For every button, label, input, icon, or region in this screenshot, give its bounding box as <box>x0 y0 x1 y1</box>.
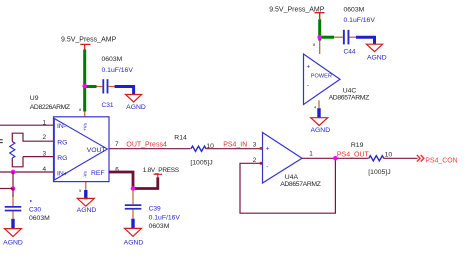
svg-text:AD8226ARMZ: AD8226ARMZ <box>30 104 70 111</box>
svg-text:AGND: AGND <box>126 104 146 111</box>
svg-text:7: 7 <box>115 141 119 148</box>
svg-text:C31: C31 <box>102 102 114 109</box>
svg-text:[1005]J: [1005]J <box>368 169 390 176</box>
svg-text:PS4_IN: PS4_IN <box>223 142 247 149</box>
svg-text:U4C: U4C <box>343 87 357 94</box>
svg-text:0.1uF/16V: 0.1uF/16V <box>149 214 181 221</box>
power port 9.5V_Press_AMP (left) <box>61 37 117 50</box>
svg-text:PS4_OUT: PS4_OUT <box>337 151 370 158</box>
svg-text:+: + <box>307 64 311 71</box>
svg-text:-Vs: -Vs <box>83 171 88 179</box>
port PS4_CON <box>417 155 458 164</box>
wire pin1 IN- <box>0 124 54 126</box>
svg-text:PS4_CON: PS4_CON <box>425 157 457 164</box>
svg-text:C39: C39 <box>149 206 161 213</box>
svg-text:0.1uF/16V: 0.1uF/16V <box>102 67 134 74</box>
wire R14 to U4A pin3 <box>206 148 263 150</box>
svg-text:R19: R19 <box>351 142 364 149</box>
svg-text:0.1uF/16V: 0.1uF/16V <box>344 17 376 24</box>
wire pin2 RG <box>12 133 53 141</box>
svg-text:VOUT: VOUT <box>87 147 106 154</box>
svg-text:0603M: 0603M <box>344 6 365 13</box>
svg-text:AGND: AGND <box>367 55 387 62</box>
svg-text:0603M: 0603M <box>102 56 123 63</box>
pin 5 (U9 -Vs) to ground <box>79 182 88 199</box>
wire U4A output to R19 <box>302 157 369 159</box>
wire feedback loop U4A <box>240 158 335 213</box>
svg-text:AGND: AGND <box>77 207 97 214</box>
svg-text:IN+: IN+ <box>57 170 68 177</box>
svg-text:RG: RG <box>57 140 67 147</box>
pin wire to U4C V+ <box>319 41 321 54</box>
junction node C30 <box>11 186 16 191</box>
ground AGND (C31) <box>126 95 146 112</box>
svg-text:-: - <box>307 83 309 90</box>
junction on right 9.5V rail <box>317 35 322 40</box>
svg-text:AGND: AGND <box>310 127 330 134</box>
ground AGND (C30) <box>3 219 23 247</box>
svg-text:AD8657ARMZ: AD8657ARMZ <box>329 95 370 102</box>
ground AGND (C44) <box>367 44 387 61</box>
svg-text:3: 3 <box>42 151 46 158</box>
svg-text:AD8657ARMZ: AD8657ARMZ <box>280 181 321 188</box>
resistor R19 <box>351 142 392 176</box>
wire REF net 1.8V_PRESS (thick) <box>109 172 158 189</box>
wire pin3 RG <box>12 157 53 167</box>
svg-text:+Vs: +Vs <box>83 122 88 131</box>
svg-text:C30: C30 <box>29 206 41 213</box>
wire 9.5V to C44 (green) <box>320 36 334 39</box>
svg-text:+: + <box>266 146 270 153</box>
wire 9.5V vertical (green) <box>83 50 86 112</box>
wire 9.5V to C31 (green) <box>85 85 97 88</box>
power port 1.8V_PRESS <box>143 167 180 177</box>
ground AGND (U9) <box>77 198 97 213</box>
svg-text:RG: RG <box>57 155 67 162</box>
svg-text:IN-: IN- <box>57 123 66 130</box>
wire R19 to port <box>384 157 418 159</box>
svg-text:0603M: 0603M <box>29 215 50 222</box>
capacitor C44 <box>343 6 375 55</box>
ground AGND (U4C) <box>310 108 330 134</box>
svg-text:[1005]J: [1005]J <box>190 159 212 166</box>
value mark (cut off at edge) <box>0 140 3 143</box>
ground AGND (C39) <box>124 219 144 247</box>
op-amp U4C AD8657ARMZ (power part) <box>304 54 370 105</box>
wire down to C30 node <box>12 172 14 189</box>
junction node 1.8V <box>131 186 136 191</box>
resistor RG (gain resistor) <box>10 142 15 159</box>
svg-text:C44: C44 <box>344 49 356 56</box>
pin wire U4C V- to ground <box>318 100 320 108</box>
pin dot U4A pin3 <box>260 147 263 150</box>
svg-text:1.8V_PRESS: 1.8V_PRESS <box>143 167 180 174</box>
svg-text:10: 10 <box>385 151 393 158</box>
capacitor C39 <box>125 189 181 231</box>
power port 9.5V_Press_AMP (top right) <box>269 6 325 19</box>
svg-text:9.5V_Press_AMP: 9.5V_Press_AMP <box>61 37 117 44</box>
svg-text:AGND: AGND <box>3 240 23 247</box>
wire C44 to AGND (blue) <box>350 36 358 38</box>
op-amp U9 AD8226ARMZ <box>30 95 109 181</box>
svg-text:3: 3 <box>253 141 257 148</box>
wire C31 to AGND (blue) <box>108 86 116 88</box>
svg-text:2: 2 <box>42 134 46 141</box>
op-amp U4A AD8657ARMZ <box>263 133 321 188</box>
svg-text:1: 1 <box>309 150 313 157</box>
wire 9.5V vertical (green, right) <box>318 19 321 40</box>
pin U9 +Vs (pin 8) <box>84 112 86 118</box>
junction node PS4_OUT <box>333 156 338 161</box>
junction node pin4 <box>11 170 16 175</box>
pin dot U4A pin2 <box>260 162 263 165</box>
svg-text:AGND: AGND <box>124 239 144 246</box>
svg-text:OUT_Press4: OUT_Press4 <box>126 142 167 149</box>
wire VOUT to R14 <box>109 148 191 150</box>
svg-text:R14: R14 <box>174 134 187 141</box>
wire to left edge <box>0 188 13 190</box>
wire pin4 IN+ <box>0 171 54 173</box>
svg-text:POWER: POWER <box>311 74 332 80</box>
resistor R14 <box>174 134 214 166</box>
svg-text:0603M: 0603M <box>149 223 170 230</box>
svg-text:-: - <box>266 163 268 170</box>
svg-text:REF: REF <box>91 170 105 177</box>
capacitor C30 <box>5 189 50 222</box>
capacitor C31 <box>97 79 114 109</box>
svg-text:U9: U9 <box>30 95 39 102</box>
junction on 9.5V rail <box>82 84 87 89</box>
